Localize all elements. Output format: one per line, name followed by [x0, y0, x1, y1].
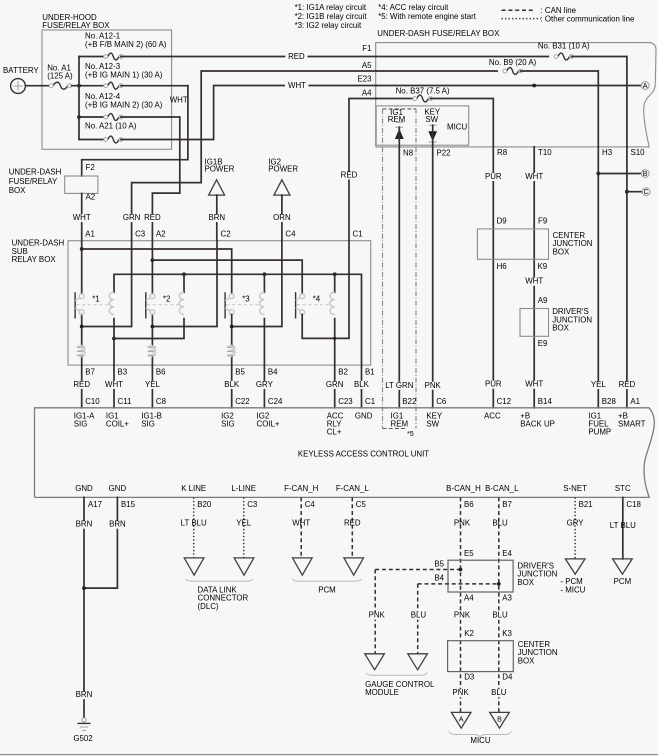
- svg-text:A: A: [643, 81, 648, 90]
- svg-text:K9: K9: [538, 262, 548, 271]
- svg-text:*2: IG1B relay circuit: *2: IG1B relay circuit: [295, 12, 368, 21]
- label RED wire A1: [615, 381, 639, 389]
- svg-text:S10: S10: [631, 148, 646, 157]
- wire to connector C: [627, 191, 642, 193]
- svg-text:E23: E23: [357, 74, 372, 83]
- svg-text:PCM: PCM: [614, 577, 632, 586]
- wire bus A2 to relay *4 contact: [152, 260, 302, 294]
- remote-start dashed box top: [383, 108, 417, 110]
- wire *4 coil bottom to B2 (GRN): [334, 319, 336, 408]
- svg-text:LT BLU: LT BLU: [181, 518, 207, 527]
- svg-text:L-LINE: L-LINE: [231, 484, 256, 493]
- wire B31 to S10: [572, 57, 627, 147]
- fuse No. B37 (7.5 A): [417, 95, 429, 102]
- svg-text:BLK: BLK: [224, 380, 240, 389]
- svg-text:B22: B22: [402, 397, 416, 406]
- DLC connector arrow 1: [184, 558, 204, 575]
- svg-text:D9: D9: [497, 217, 508, 226]
- wire A12-1 output / RED to F1: [121, 56, 285, 58]
- wire relay coil-top bus to B1 (BLK): [114, 274, 362, 408]
- svg-text:No. B37 (7.5 A): No. B37 (7.5 A): [396, 86, 450, 95]
- wire PNK to gauge control module: [374, 570, 376, 654]
- svg-text:C11: C11: [118, 397, 132, 406]
- svg-text:H3: H3: [602, 148, 613, 157]
- wire F2 to A1 (WHT): [81, 193, 83, 240]
- wire B21 to PCM/MICU (GRY, S-NET): [574, 497, 576, 559]
- svg-text:C8: C8: [156, 397, 167, 406]
- wire A17 ground (BRN): [83, 497, 85, 718]
- remote-start dashed box bottom: [383, 428, 406, 430]
- wire RED label to F1: [308, 56, 375, 58]
- label ORN wire to C4: [270, 214, 294, 222]
- label LT GRN wire B22: [385, 382, 413, 390]
- svg-text:F-CAN_H: F-CAN_H: [284, 484, 318, 493]
- node relay *2 contact output: [151, 325, 155, 329]
- wire A4 to fuse B37: [376, 98, 415, 100]
- label BLK wire B1: [351, 381, 373, 389]
- svg-text:BRN: BRN: [208, 213, 225, 222]
- IG2 POWER symbol: [274, 180, 290, 195]
- label GRN wire to C3: [120, 214, 144, 222]
- svg-text:A2: A2: [86, 193, 96, 202]
- svg-text:BLU: BLU: [491, 688, 507, 697]
- wire *1 coil bottom to B3 (WHT): [113, 319, 115, 408]
- node A1 bus junction: [80, 247, 84, 251]
- label WHT wire mid: [522, 278, 546, 286]
- IG1 REM diode (arrow up): [395, 121, 403, 123]
- wire A2 through relay *2 contact to B6: [151, 241, 153, 294]
- MICU box: [376, 106, 469, 145]
- svg-text:ACC: ACC: [484, 411, 501, 420]
- wire B9 to H3: [520, 71, 598, 147]
- fuse F2 box: [65, 176, 98, 193]
- wire C3 to relay *1 contact bottom: [82, 241, 132, 327]
- node ground wire junction: [82, 586, 86, 590]
- svg-text:LT GRN: LT GRN: [385, 381, 414, 390]
- legend CAN line sample: [502, 9, 536, 11]
- relay *1 contact: [74, 292, 76, 318]
- svg-text:UNDER-DASH: UNDER-DASH: [9, 168, 62, 177]
- svg-text:WHT: WHT: [73, 213, 91, 222]
- svg-text:B21: B21: [579, 500, 593, 509]
- svg-text:PCM: PCM: [318, 585, 336, 594]
- driver's junction box (upper) outline: [520, 309, 549, 337]
- svg-text:GND: GND: [75, 484, 93, 493]
- svg-text:RED: RED: [344, 518, 361, 527]
- svg-text:BRN: BRN: [109, 520, 126, 529]
- coil element B5: [228, 345, 236, 357]
- relay *4 contact: [295, 292, 297, 318]
- svg-text:RED: RED: [144, 213, 161, 222]
- coil element B7: [78, 345, 86, 357]
- fuse No. A12-4 (30 A): [108, 114, 119, 121]
- svg-text:D4: D4: [502, 673, 513, 682]
- label GRY wire B4: [252, 381, 276, 389]
- label WHT wire B3: [102, 381, 126, 389]
- svg-text:A9: A9: [538, 296, 548, 305]
- svg-text:A2: A2: [156, 229, 166, 238]
- svg-text:CL+: CL+: [327, 427, 342, 436]
- svg-text:*1: IG1A relay circuit: *1: IG1A relay circuit: [295, 3, 367, 12]
- label PNK wire gauge: [366, 612, 388, 620]
- node bus junction main: [77, 84, 81, 88]
- svg-text:C5: C5: [356, 500, 367, 509]
- relay *3 coil: [260, 292, 265, 314]
- svg-text:BRN: BRN: [76, 690, 93, 699]
- gauge control module arrow 2: [408, 654, 428, 670]
- svg-text:COIL+: COIL+: [257, 419, 280, 428]
- fuse No. B31 (10 A): [558, 53, 570, 60]
- svg-text:B7: B7: [502, 500, 512, 509]
- svg-text:SIG: SIG: [141, 419, 155, 428]
- label WHT on E23 line: [285, 82, 309, 90]
- svg-text:RED: RED: [288, 52, 305, 61]
- wire C18 to PCM (LT BLU, STC): [622, 497, 624, 559]
- wire P22 to C6 (PNK): [432, 125, 434, 408]
- svg-text:(+B F/B MAIN 2) (60 A): (+B F/B MAIN 2) (60 A): [85, 40, 167, 49]
- label PNK wire D3: [450, 689, 472, 697]
- fuse No. B37 label: [396, 87, 450, 95]
- svg-text:G502: G502: [73, 734, 92, 743]
- label YEL wire B28: [587, 381, 609, 389]
- STC connector arrow: [613, 559, 633, 574]
- fuse No. A1 (125 A): [53, 82, 68, 89]
- wire B7 to MICU B (BLU, B-CAN low): [498, 497, 500, 712]
- svg-text:BOX: BOX: [518, 656, 535, 665]
- connector A (circled): [641, 82, 649, 90]
- wire A5 to fuse B9: [376, 70, 498, 72]
- svg-text:C12: C12: [497, 397, 511, 406]
- svg-text:E9: E9: [538, 339, 548, 348]
- svg-text:E4: E4: [502, 549, 512, 558]
- node coil bus *3: [263, 272, 267, 276]
- gauge control module brace: [366, 673, 427, 675]
- svg-text:BOX: BOX: [517, 578, 534, 587]
- svg-text:GRY: GRY: [256, 380, 274, 389]
- MICU connector arrow B: [490, 712, 510, 728]
- fuse No. B9 (20 A): [507, 68, 519, 75]
- svg-text:PNK: PNK: [452, 688, 469, 697]
- svg-text:PNK: PNK: [454, 518, 471, 527]
- relay *2 link (dashed): [147, 304, 180, 306]
- label RED wire B7: [70, 381, 94, 389]
- svg-text:SMART: SMART: [618, 419, 646, 428]
- svg-text:*4: ACC relay circuit: *4: ACC relay circuit: [378, 3, 449, 12]
- wire *3 coil bottom to B4 (GRY): [263, 319, 265, 408]
- node H3 branch junction: [596, 172, 600, 176]
- svg-text:A1: A1: [85, 229, 95, 238]
- svg-text:A: A: [459, 715, 464, 724]
- svg-text:C1: C1: [353, 229, 363, 238]
- svg-text:PNK: PNK: [425, 381, 442, 390]
- wire IG2 POWER to C4 (ORN): [281, 195, 283, 241]
- svg-text:YEL: YEL: [236, 518, 252, 527]
- svg-text:BATTERY: BATTERY: [3, 66, 39, 75]
- remote-start dash-dot line right: [415, 109, 417, 429]
- svg-text:F1: F1: [362, 44, 371, 53]
- wire B20 to DLC (LT BLU, K line): [193, 497, 195, 558]
- svg-text:C1: C1: [365, 397, 375, 406]
- coil element B6: [148, 345, 156, 357]
- relay *2 coil: [179, 292, 184, 314]
- svg-text:MODULE: MODULE: [365, 688, 399, 697]
- label BRN wire B15: [105, 521, 129, 529]
- keyless access control unit outline: [35, 408, 655, 498]
- wire A12-3 output: [121, 85, 188, 87]
- wire E23 across to node A: [376, 85, 642, 87]
- svg-text:GRN: GRN: [123, 213, 141, 222]
- svg-text:GRN: GRN: [326, 380, 344, 389]
- svg-text:C4: C4: [285, 229, 296, 238]
- svg-text:WHT: WHT: [292, 518, 310, 527]
- fuse No. A21 (10 A): [108, 136, 119, 143]
- svg-text:RELAY BOX: RELAY BOX: [12, 255, 57, 264]
- wire bus to fuse A12-4: [79, 116, 106, 118]
- svg-text:E5: E5: [464, 549, 474, 558]
- svg-text:*4: *4: [313, 295, 321, 304]
- relay *1 coil: [109, 292, 114, 314]
- relay *3 link (dashed): [226, 304, 260, 306]
- node coil bus *2: [182, 272, 186, 276]
- wire C1 to relay *4 contact bottom: [302, 241, 349, 339]
- svg-text:BOX: BOX: [553, 247, 570, 256]
- relay *2 contact: [145, 292, 147, 318]
- wire R8 to C12 (PUR): [492, 147, 494, 408]
- wire B4 branch (BLU): [418, 583, 499, 585]
- center junction box (lower) outline: [448, 641, 514, 672]
- svg-text:WHT: WHT: [170, 95, 188, 104]
- svg-text:C2: C2: [221, 229, 231, 238]
- svg-text:C22: C22: [235, 397, 249, 406]
- svg-text:STC: STC: [615, 484, 631, 493]
- svg-text:B20: B20: [197, 500, 212, 509]
- wire C2 to relay *2 contact bottom: [152, 241, 217, 327]
- wire C5 to PCM (RED, F-CAN low): [351, 497, 353, 558]
- label PNK wire A4: [451, 612, 473, 620]
- wire B15 ground (BRN): [84, 497, 117, 588]
- wire A21 output to E23 (WHT): [121, 86, 288, 140]
- node coil bus *4: [333, 272, 337, 276]
- wire F1 to fuse B31: [376, 56, 549, 58]
- wire C3 to DLC (YEL, L line): [243, 497, 245, 558]
- svg-text:B28: B28: [602, 397, 617, 406]
- battery: [11, 79, 26, 94]
- page bottom rule: [0, 754, 658, 756]
- svg-text:A4: A4: [362, 88, 372, 97]
- PCM connector arrow 1: [293, 558, 313, 575]
- svg-text:SIG: SIG: [74, 419, 88, 428]
- svg-text:F9: F9: [538, 217, 548, 226]
- label RED wire to A2: [140, 214, 164, 222]
- label BLU wire D4: [488, 689, 510, 697]
- svg-text:A3: A3: [502, 594, 512, 603]
- svg-text:A1: A1: [630, 397, 640, 406]
- fuse No. A12-3 (30 A): [108, 82, 119, 89]
- S-NET connector arrow: [565, 559, 585, 574]
- svg-text:B6: B6: [464, 500, 474, 509]
- wire A12-3 to F2 (WHT): [82, 86, 188, 176]
- under-dash sub relay box outline: [68, 241, 371, 365]
- wire to connector B: [598, 173, 641, 175]
- svg-text:UNDER-DASH FUSE/RELAY BOX: UNDER-DASH FUSE/RELAY BOX: [377, 29, 500, 38]
- PCM connector arrow 2: [344, 558, 364, 575]
- svg-text:KEYLESS ACCESS CONTROL UNIT: KEYLESS ACCESS CONTROL UNIT: [298, 450, 429, 459]
- wire S10 to A1 (RED): [626, 147, 628, 408]
- svg-text:LT BLU: LT BLU: [610, 521, 636, 530]
- svg-text:PUR: PUR: [485, 380, 502, 389]
- svg-text:WHT: WHT: [525, 380, 543, 389]
- wire bus to fuse A12-1: [79, 56, 107, 58]
- svg-text:GND: GND: [109, 484, 127, 493]
- svg-text:K2: K2: [464, 629, 474, 638]
- svg-text:H6: H6: [497, 262, 508, 271]
- svg-text:BLU: BLU: [492, 611, 508, 620]
- svg-text:C18: C18: [626, 500, 641, 509]
- relay *4 coil: [330, 292, 335, 314]
- svg-text:B5: B5: [434, 559, 444, 568]
- wire *2 coil top: [183, 274, 185, 292]
- driver's junction box (lower) outline: [448, 560, 513, 592]
- label PUR wire R8: [482, 173, 504, 181]
- remote-start dash-dot line left: [382, 109, 384, 429]
- bus wire vertical: [78, 57, 80, 140]
- label BLK wire B5: [221, 381, 243, 389]
- label RED wire to C1: [337, 172, 361, 180]
- svg-text:B2: B2: [338, 368, 348, 377]
- svg-text:(+B IG MAIN 1) (30 A): (+B IG MAIN 1) (30 A): [85, 70, 163, 79]
- svg-text:B: B: [497, 715, 502, 724]
- node coil bottom junction *1: [112, 337, 116, 341]
- svg-text:(DLC): (DLC): [198, 602, 219, 611]
- relay *3 contact: [224, 292, 226, 318]
- svg-text:POWER: POWER: [205, 165, 235, 174]
- svg-text:C23: C23: [338, 397, 353, 406]
- svg-text:*1: *1: [92, 295, 99, 304]
- node bus junction A12-4: [77, 115, 81, 119]
- svg-text:*3: IG2 relay circuit: *3: IG2 relay circuit: [295, 21, 362, 30]
- svg-text:T10: T10: [538, 148, 552, 157]
- wire A4 to C1 (RED): [349, 99, 376, 241]
- svg-text:*2: *2: [163, 295, 170, 304]
- svg-text:ORN: ORN: [273, 213, 291, 222]
- wire bus A1 to relay *3 contact: [82, 249, 232, 294]
- svg-text:A17: A17: [88, 500, 102, 509]
- KEY SW diode (arrow down): [429, 124, 437, 126]
- under-hood fuse/relay box outline: [42, 30, 172, 149]
- relay *4 link (dashed): [297, 304, 331, 306]
- relay *1 link (dashed): [76, 304, 109, 306]
- svg-text:FUSE/RELAY: FUSE/RELAY: [9, 177, 58, 186]
- svg-text:COIL+: COIL+: [106, 419, 129, 428]
- svg-text:REM: REM: [391, 419, 409, 428]
- wire C4 to relay *3 contact bottom: [232, 241, 282, 327]
- svg-text:P22: P22: [437, 149, 451, 158]
- svg-text:WHT: WHT: [288, 81, 306, 90]
- svg-text:C: C: [643, 187, 648, 196]
- svg-text:POWER: POWER: [268, 165, 298, 174]
- wire B5 branch (PNK): [375, 569, 460, 571]
- svg-text:PUMP: PUMP: [588, 427, 611, 436]
- svg-text:B3: B3: [118, 368, 128, 377]
- wire battery to fuse A1: [25, 85, 49, 87]
- svg-text:No. B9 (20 A): No. B9 (20 A): [489, 58, 537, 67]
- svg-text:No. B31 (10 A): No. B31 (10 A): [538, 42, 590, 51]
- svg-text:B5: B5: [235, 368, 245, 377]
- svg-text:*5: *5: [407, 429, 414, 438]
- label RED on F1 line: [285, 53, 307, 61]
- svg-text:B1: B1: [365, 368, 375, 377]
- IG1B POWER symbol: [209, 180, 225, 195]
- svg-text:N8: N8: [403, 149, 414, 158]
- svg-text:No. A21 (10 A): No. A21 (10 A): [85, 122, 137, 131]
- MICU connector arrow A: [451, 712, 471, 728]
- node relay *3 contact output: [230, 325, 234, 329]
- svg-text:- MICU: - MICU: [560, 585, 585, 594]
- svg-text:A4: A4: [464, 594, 474, 603]
- svg-text:*3: *3: [242, 295, 250, 304]
- svg-text:F-CAN_L: F-CAN_L: [336, 484, 369, 493]
- gauge control module arrow 1: [365, 654, 385, 670]
- svg-text:BLU: BLU: [492, 518, 508, 527]
- label BRN wire A17: [72, 521, 96, 529]
- svg-text:PNK: PNK: [369, 611, 386, 620]
- label BLU wire A3: [489, 612, 511, 620]
- label WHT wire B14: [522, 381, 546, 389]
- svg-text:BACK UP: BACK UP: [520, 419, 555, 428]
- svg-text:RED: RED: [73, 380, 90, 389]
- svg-text:SW: SW: [425, 115, 438, 124]
- svg-text:MICU: MICU: [447, 123, 467, 132]
- svg-text:S-NET: S-NET: [563, 484, 587, 493]
- svg-text:RED: RED: [619, 380, 636, 389]
- node relay *1 contact output: [80, 325, 84, 329]
- svg-text:BOX: BOX: [552, 324, 569, 333]
- center junction box (upper) outline: [477, 229, 548, 259]
- node B4 junction: [497, 582, 501, 586]
- wire N8 to B22 (LT GRN): [398, 127, 400, 408]
- svg-text:C24: C24: [268, 397, 283, 406]
- wire WHT label to E23: [309, 85, 375, 87]
- node T10 junction: [532, 84, 536, 88]
- MICU brace: [449, 732, 511, 738]
- connector B (circled): [641, 170, 649, 178]
- wire *4 coil top: [334, 274, 336, 292]
- svg-text:B7: B7: [85, 368, 95, 377]
- svg-text:: Other communication line: : Other communication line: [541, 15, 635, 24]
- legend other-communication line sample: [502, 18, 541, 20]
- svg-text:C6: C6: [436, 397, 447, 406]
- svg-text:*5: With remote engine start: *5: With remote engine start: [378, 12, 477, 21]
- svg-text:YEL: YEL: [145, 380, 161, 389]
- data link connector brace: [186, 579, 253, 581]
- svg-text:WHT: WHT: [525, 277, 543, 286]
- wire B6 to MICU A (PNK, B-CAN high): [460, 497, 462, 712]
- svg-text:SW: SW: [426, 419, 439, 428]
- wire C4 to PCM (WHT, F-CAN high): [300, 497, 302, 558]
- wire coil-bottom link *1 to *2: [114, 319, 184, 339]
- svg-text:K LINE: K LINE: [181, 484, 206, 493]
- svg-text:C10: C10: [85, 397, 100, 406]
- svg-text:BLK: BLK: [354, 380, 370, 389]
- svg-text:RED: RED: [341, 171, 358, 180]
- svg-text:BRN: BRN: [76, 520, 93, 529]
- wire A5 to C3 (GRN): [132, 71, 376, 241]
- fuse No. A12-1 (60 A): [108, 53, 119, 60]
- label YEL wire B6: [141, 381, 163, 389]
- label PNK wire C6: [422, 382, 444, 390]
- node S10 branch junction: [625, 190, 629, 194]
- svg-text:BLU: BLU: [411, 611, 427, 620]
